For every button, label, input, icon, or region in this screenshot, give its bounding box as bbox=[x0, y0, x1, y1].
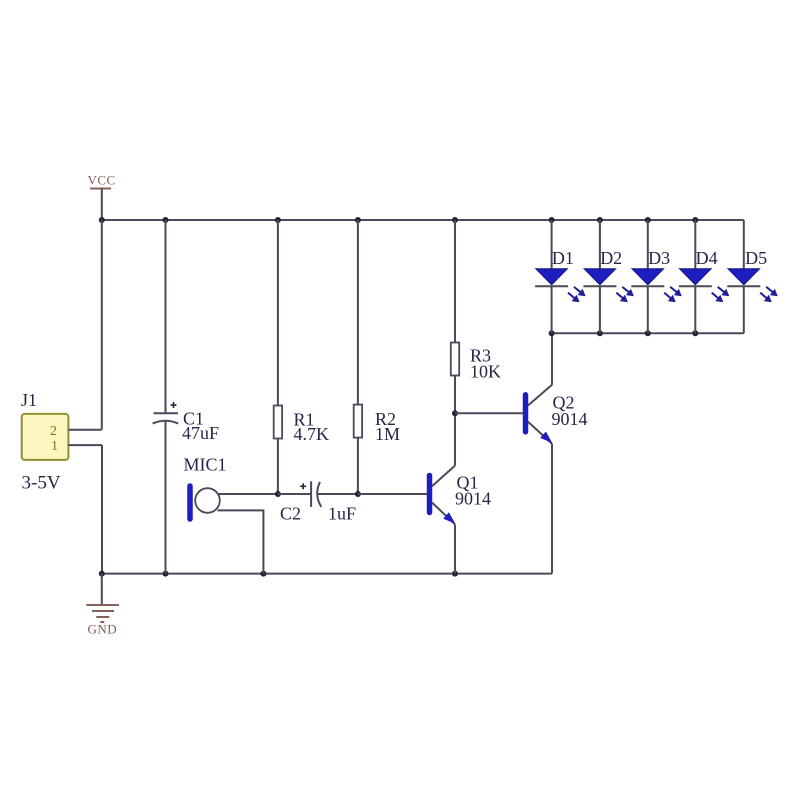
svg-text:D3: D3 bbox=[648, 248, 670, 268]
svg-text:D5: D5 bbox=[745, 248, 767, 268]
svg-text:VCC: VCC bbox=[88, 173, 116, 188]
connector J1 bbox=[21, 390, 68, 494]
wire to Q2 base bbox=[455, 412, 523, 414]
junction top rail / D3 column bbox=[645, 217, 651, 223]
wire MIC1 to C2 row bbox=[218, 493, 278, 495]
svg-text:2: 2 bbox=[50, 424, 57, 439]
junction top rail / VCC column bbox=[99, 217, 105, 223]
ground symbol GND bbox=[86, 574, 119, 637]
svg-text:1uF: 1uF bbox=[328, 503, 356, 523]
wire Q2 collector up to LED rail bbox=[551, 333, 553, 385]
svg-text:D2: D2 bbox=[600, 248, 622, 268]
microphone MIC1 bbox=[184, 455, 227, 519]
wire J1 pin 2 stub bbox=[68, 429, 101, 431]
junction LED rail / D2 bbox=[597, 330, 603, 336]
wire Q2 emitter down to ground rail bbox=[551, 444, 553, 574]
wire top VCC rail bbox=[102, 219, 744, 221]
LED D4 bbox=[679, 220, 730, 333]
transistor Q1 bbox=[430, 466, 492, 525]
LED D5 bbox=[727, 220, 778, 333]
junction top rail / R2 column bbox=[355, 217, 361, 223]
capacitor C2 bbox=[278, 481, 358, 523]
wire VCC column down to J1 pin 2 bbox=[101, 220, 103, 430]
junction R2 bottom / base wire bbox=[355, 491, 361, 497]
resistor R3 bbox=[451, 220, 501, 413]
junction R1 bottom / mic wire / C2 bbox=[275, 491, 281, 497]
svg-text:3-5V: 3-5V bbox=[22, 473, 61, 494]
wire Q1 emitter down bbox=[454, 524, 456, 573]
wire bottom ground rail bbox=[102, 573, 552, 575]
LED D1 bbox=[535, 220, 586, 333]
wire MIC1 lower to ground branch bbox=[218, 510, 264, 573]
junction top rail / R1 column bbox=[275, 217, 281, 223]
junction top rail / R3 column bbox=[452, 217, 458, 223]
resistor R2 bbox=[354, 220, 400, 494]
svg-text:D4: D4 bbox=[696, 248, 718, 268]
svg-text:9014: 9014 bbox=[552, 409, 588, 429]
junction R3 bottom / Q1 collector / Q2 base bbox=[452, 410, 458, 416]
power symbol VCC bbox=[88, 173, 116, 221]
resistor R1 bbox=[274, 220, 329, 494]
junction bottom rail / MIC column bbox=[260, 571, 266, 577]
wire to Q1 base bbox=[358, 493, 427, 495]
junction bottom rail / C1 column bbox=[163, 571, 169, 577]
junction bottom rail / Q1 emitter column bbox=[452, 571, 458, 577]
wire J1 pin 1 down to ground rail bbox=[101, 445, 103, 573]
svg-text:J1: J1 bbox=[21, 390, 37, 410]
junction top rail / D2 column bbox=[597, 217, 603, 223]
svg-text:MIC1: MIC1 bbox=[184, 455, 227, 475]
transistor Q2 bbox=[526, 385, 588, 444]
svg-text:C2: C2 bbox=[280, 503, 301, 523]
LED D3 bbox=[631, 220, 682, 333]
svg-text:47uF: 47uF bbox=[182, 423, 219, 443]
junction LED rail / D1 bbox=[549, 330, 555, 336]
wire LED cathode rail bbox=[552, 332, 744, 334]
svg-text:1: 1 bbox=[51, 439, 58, 454]
junction bottom rail / GND column bbox=[99, 571, 105, 577]
junction top rail / C1 column bbox=[163, 217, 169, 223]
svg-text:1M: 1M bbox=[375, 424, 400, 444]
svg-text:9014: 9014 bbox=[455, 488, 491, 508]
svg-text:D1: D1 bbox=[552, 248, 574, 268]
junction LED rail / D4 bbox=[692, 330, 698, 336]
junction top rail / D1 column bbox=[549, 217, 555, 223]
LED D2 bbox=[583, 220, 634, 333]
capacitor C1 bbox=[153, 220, 219, 574]
svg-text:10K: 10K bbox=[470, 361, 501, 381]
junction top rail / D4 column bbox=[692, 217, 698, 223]
svg-text:GND: GND bbox=[88, 622, 118, 637]
junction LED rail / D3 bbox=[645, 330, 651, 336]
wire J1 pin 1 stub bbox=[68, 444, 102, 446]
svg-text:4.7K: 4.7K bbox=[294, 424, 330, 444]
wire Q1 collector up bbox=[454, 413, 456, 465]
